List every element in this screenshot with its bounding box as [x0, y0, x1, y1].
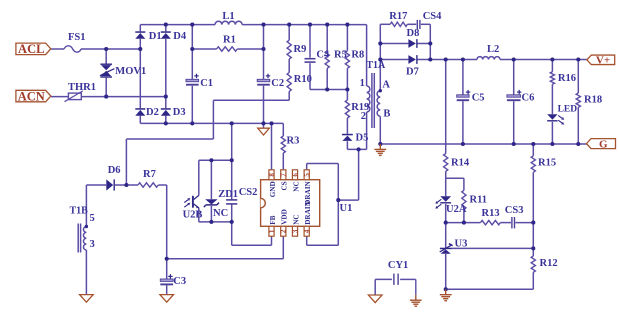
svg-text:5: 5 [90, 213, 95, 224]
svg-text:D4: D4 [173, 31, 187, 42]
svg-text:U2A: U2A [446, 204, 467, 215]
svg-text:NC: NC [213, 208, 228, 219]
svg-text:L2: L2 [487, 44, 499, 55]
svg-text:6: 6 [291, 173, 299, 177]
svg-text:A: A [382, 80, 390, 91]
svg-text:R12: R12 [540, 258, 558, 269]
svg-text:CS2: CS2 [239, 187, 258, 198]
svg-text:8: 8 [268, 173, 276, 177]
svg-text:R11: R11 [470, 194, 488, 205]
svg-text:U3: U3 [455, 238, 468, 249]
svg-text:ZD1: ZD1 [218, 189, 238, 200]
svg-text:FS1: FS1 [68, 32, 86, 43]
svg-text:CY1: CY1 [388, 260, 408, 271]
svg-text:CS4: CS4 [423, 11, 442, 22]
svg-text:R10: R10 [294, 74, 312, 85]
svg-text:R13: R13 [482, 208, 500, 219]
svg-text:U1: U1 [340, 203, 353, 214]
svg-text:D2: D2 [146, 107, 159, 118]
svg-text:CS: CS [281, 181, 289, 190]
svg-text:R3: R3 [287, 136, 300, 147]
svg-text:2: 2 [280, 229, 288, 233]
svg-text:3: 3 [291, 229, 299, 233]
svg-text:R7: R7 [143, 169, 156, 180]
svg-text:NC: NC [292, 181, 300, 191]
svg-text:THR1: THR1 [68, 82, 96, 93]
svg-text:D6: D6 [108, 165, 121, 176]
svg-text:1: 1 [268, 229, 276, 233]
svg-text:R14: R14 [451, 158, 470, 169]
svg-text:GND: GND [269, 181, 277, 197]
svg-text:R15: R15 [538, 158, 556, 169]
svg-text:B: B [383, 108, 390, 119]
svg-text:R5: R5 [334, 50, 347, 61]
svg-text:ACN: ACN [18, 89, 45, 103]
svg-text:R9: R9 [294, 44, 307, 55]
svg-text:7: 7 [280, 173, 288, 177]
svg-text:3: 3 [90, 239, 95, 250]
svg-text:CS3: CS3 [505, 205, 524, 216]
svg-text:R18: R18 [584, 95, 602, 106]
svg-text:V+: V+ [596, 55, 610, 67]
svg-text:T1B: T1B [70, 206, 89, 217]
svg-text:U2B: U2B [183, 209, 203, 220]
svg-text:FB: FB [269, 215, 277, 224]
svg-text:MOV1: MOV1 [115, 66, 146, 77]
svg-text:LED: LED [558, 104, 578, 114]
svg-text:R1: R1 [223, 35, 236, 46]
svg-text:C3: C3 [173, 276, 186, 287]
svg-text:DRAIN: DRAIN [304, 180, 312, 204]
svg-text:R8: R8 [351, 50, 364, 61]
svg-text:D7: D7 [406, 67, 419, 78]
svg-text:DRAIN: DRAIN [304, 200, 312, 224]
svg-text:1: 1 [360, 78, 365, 89]
svg-text:C4: C4 [316, 50, 330, 61]
svg-text:C6: C6 [522, 92, 535, 103]
svg-text:D1: D1 [149, 31, 162, 42]
svg-text:D3: D3 [173, 107, 186, 118]
svg-text:C5: C5 [472, 92, 485, 103]
svg-text:L1: L1 [222, 11, 234, 22]
svg-text:D5: D5 [356, 132, 369, 143]
svg-text:R19: R19 [351, 102, 369, 113]
svg-text:R17: R17 [389, 11, 407, 22]
svg-text:VDD: VDD [281, 209, 289, 225]
svg-text:D8: D8 [407, 28, 420, 39]
svg-text:NC: NC [292, 214, 300, 224]
svg-text:C1: C1 [200, 78, 213, 89]
svg-text:T1A: T1A [366, 60, 386, 71]
svg-text:R16: R16 [558, 73, 576, 84]
svg-text:ACL: ACL [18, 42, 44, 56]
svg-text:G: G [599, 139, 608, 151]
svg-text:4: 4 [303, 229, 311, 233]
svg-text:5: 5 [303, 173, 311, 177]
svg-text:C2: C2 [271, 78, 284, 89]
